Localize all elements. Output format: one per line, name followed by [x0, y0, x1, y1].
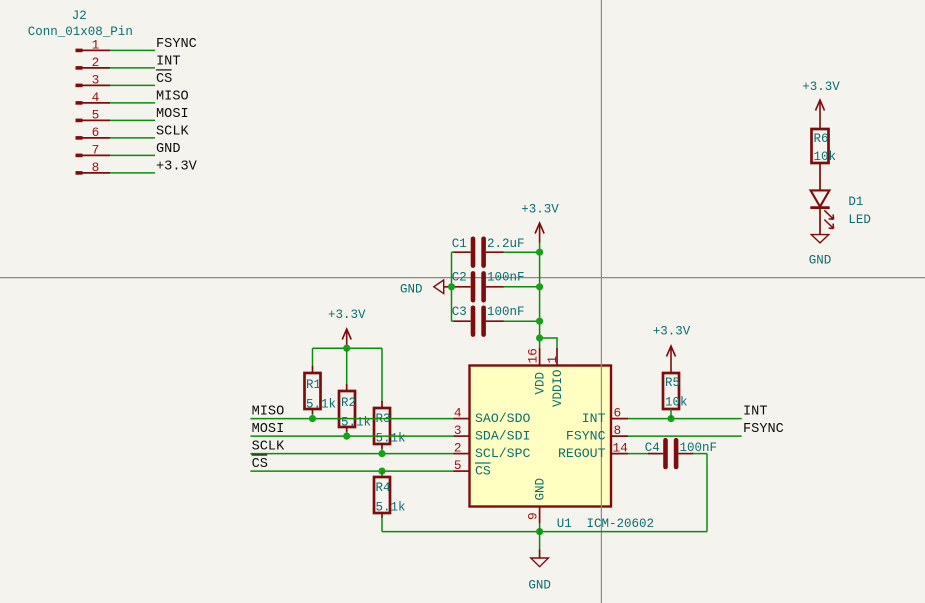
power symbol +3.3V (LED branch): [802, 80, 840, 129]
wire SCLK row: [250, 453, 453, 455]
junction R1 MISO: [309, 415, 316, 422]
op-amp U1 pin 8 FSYNC: [566, 423, 628, 444]
ground symbol (decoupling): [400, 280, 444, 296]
wire R3 to SCLK: [381, 449, 383, 454]
capacitor C2: [444, 271, 525, 301]
svg-text:C3: C3: [452, 305, 467, 319]
svg-text:LED: LED: [848, 213, 871, 227]
svg-text:GND: GND: [809, 254, 832, 268]
svg-text:6: 6: [614, 405, 622, 420]
ground symbol (U1): [528, 550, 551, 593]
op-amp U1 pin 9 GND: [526, 478, 548, 524]
wire ground row under U1: [382, 531, 707, 533]
J2 pin 6: [76, 125, 111, 140]
resistor R2: [339, 384, 371, 432]
wire J2 pin5 to MOSI: [110, 119, 155, 121]
op-amp U1 pin 5 CS: [454, 458, 491, 479]
svg-text:7: 7: [92, 142, 100, 157]
J2 pin 5: [76, 107, 111, 122]
svg-text:+3.3V: +3.3V: [653, 325, 691, 339]
svg-text:16: 16: [526, 348, 541, 363]
svg-text:GND: GND: [533, 478, 547, 501]
svg-text:8: 8: [92, 160, 100, 175]
svg-text:C2: C2: [452, 271, 467, 285]
resistor R3: [374, 401, 406, 449]
junction R5 INT: [667, 415, 674, 422]
op-amp U1 pin 1 VDDIO: [545, 348, 565, 407]
wire rail to R2: [346, 348, 348, 385]
svg-text:4: 4: [92, 90, 100, 105]
wire rail to R1: [312, 348, 314, 367]
wire FSYNC row: [628, 435, 742, 437]
wire R4 to ground row: [381, 518, 383, 532]
svg-text:Conn_01x08_Pin: Conn_01x08_Pin: [28, 25, 133, 39]
net label CS with overline: [252, 455, 268, 472]
wire C1 left: [452, 251, 455, 253]
wire C3 left: [452, 320, 455, 322]
J2 pin 8: [76, 160, 111, 175]
svg-text:FSYNC: FSYNC: [743, 422, 784, 437]
svg-text:VDDIO: VDDIO: [551, 369, 565, 407]
wire INT row: [628, 418, 742, 420]
svg-text:SCL/SPC: SCL/SPC: [475, 446, 530, 461]
junction R2 MOSI: [343, 433, 350, 440]
svg-text:MISO: MISO: [252, 405, 285, 420]
wire R5 to INT: [670, 409, 672, 419]
junction C3 rail: [536, 318, 543, 325]
svg-text:SCLK: SCLK: [252, 440, 285, 455]
svg-text:GND: GND: [400, 282, 423, 296]
wire R6 to D1: [819, 163, 821, 191]
svg-text:D1: D1: [848, 195, 863, 209]
svg-text:+3.3V: +3.3V: [802, 80, 840, 94]
svg-text:SCLK: SCLK: [156, 125, 189, 140]
op-amp U1 pin 16 VDD: [526, 348, 548, 395]
wire U1 pin9 to junction: [539, 523, 541, 550]
svg-text:GND: GND: [156, 142, 180, 157]
wire J2 pin8 to +3.3V: [110, 172, 155, 174]
resistor R6: [812, 129, 837, 164]
resistor R1: [305, 366, 337, 414]
power symbol +3.3V (decoupling rail): [521, 203, 559, 244]
wire branch to VDDIO pin: [540, 338, 557, 349]
wire J2 pin3 to CS: [110, 84, 155, 86]
svg-text:INT: INT: [582, 411, 606, 426]
svg-text:VDD: VDD: [533, 372, 547, 395]
svg-text:R4: R4: [376, 481, 391, 495]
resistor R5: [663, 373, 688, 410]
wire MOSI row: [250, 435, 453, 437]
junction R4 CS: [378, 468, 385, 475]
wire MISO row: [250, 418, 453, 420]
J2 pin 2: [76, 55, 111, 70]
svg-text:100nF: 100nF: [487, 271, 525, 285]
svg-text:R5: R5: [665, 376, 680, 390]
svg-text:10k: 10k: [665, 396, 688, 410]
svg-text:5.1k: 5.1k: [376, 432, 406, 446]
svg-text:5.1k: 5.1k: [306, 398, 336, 412]
wire CS row: [250, 470, 453, 472]
svg-text:REGOUT: REGOUT: [558, 446, 606, 461]
power symbol +3.3V (pull-up rail): [328, 308, 366, 348]
capacitor C4: [645, 440, 717, 467]
wire J2 pin7 to GND: [110, 154, 155, 156]
wire J2 pin4 to MISO: [110, 102, 155, 104]
svg-text:9: 9: [526, 512, 541, 520]
svg-text:CS: CS: [475, 463, 491, 478]
svg-text:100nF: 100nF: [487, 305, 525, 319]
svg-text:INT: INT: [743, 405, 767, 420]
junction U1 GND pin: [536, 528, 543, 535]
svg-text:10k: 10k: [814, 150, 837, 164]
svg-text:U1: U1: [557, 517, 572, 531]
wire J2 pin6 to SCLK: [110, 137, 155, 139]
svg-text:GND: GND: [528, 579, 551, 593]
wire C2 right to rail: [504, 286, 540, 288]
wire C4 down right side: [706, 454, 708, 532]
J2 pin 7: [76, 142, 111, 157]
svg-text:R1: R1: [306, 378, 321, 392]
svg-text:5.1k: 5.1k: [376, 501, 406, 515]
svg-text:3: 3: [92, 72, 100, 87]
wire C4 right: [693, 453, 707, 455]
junction R3 SCLK: [378, 450, 385, 457]
wire C3 right to rail: [504, 320, 540, 322]
capacitor C3: [452, 305, 525, 335]
svg-text:14: 14: [613, 440, 629, 455]
op-amp U1 body placeholder: [470, 366, 612, 507]
svg-text:+3.3V: +3.3V: [521, 203, 559, 217]
svg-text:C4: C4: [645, 441, 660, 455]
svg-text:1: 1: [545, 356, 560, 364]
power symbol +3.3V (R5 pull-up): [653, 325, 691, 374]
wire J2 pin2 to INT: [110, 67, 155, 69]
svg-text:1: 1: [92, 37, 100, 52]
junction C2 rail: [536, 283, 543, 290]
op-amp U1 pin 14 REGOUT: [558, 440, 628, 461]
svg-text:5: 5: [454, 458, 462, 473]
wire pull-up rail horizontal: [313, 347, 383, 349]
svg-text:6: 6: [92, 125, 100, 140]
svg-text:FSYNC: FSYNC: [566, 428, 606, 443]
LED D1: [810, 190, 871, 234]
wire vertical joining C1 C2 C3 left: [451, 252, 453, 321]
junction C2 ground node: [448, 283, 455, 290]
svg-text:SDA/SDI: SDA/SDI: [475, 428, 530, 443]
op-amp U1 pin 3 SDA/SDI: [454, 423, 531, 444]
svg-text:2: 2: [454, 440, 462, 455]
svg-text:5.1k: 5.1k: [341, 416, 371, 430]
op-amp U1 pin 2 SCL/SPC: [454, 440, 531, 461]
svg-text:MISO: MISO: [156, 90, 189, 105]
svg-text:4: 4: [454, 405, 462, 420]
op-amp U1 pin 6 INT: [582, 405, 628, 426]
svg-text:SAO/SDO: SAO/SDO: [475, 411, 530, 426]
svg-text:C1: C1: [452, 237, 467, 251]
svg-text:2: 2: [92, 55, 100, 70]
junction VDD branch: [536, 334, 543, 341]
wire CS to R4: [381, 471, 383, 478]
capacitor C1: [452, 237, 525, 266]
svg-text:+3.3V: +3.3V: [156, 160, 198, 175]
J2 pin 3: [76, 72, 111, 87]
J2 pin 1: [76, 37, 111, 52]
svg-text:J2: J2: [72, 9, 87, 23]
wire power to C1 node: [539, 242, 541, 252]
net label CS with overline: [156, 70, 172, 87]
wire J2 pin1 to FSYNC: [110, 49, 155, 51]
svg-text:CS: CS: [252, 457, 268, 472]
wire rail to R3: [381, 348, 383, 402]
junction C1 rail: [536, 249, 543, 256]
svg-text:ICM-20602: ICM-20602: [587, 517, 655, 531]
junction rail power: [343, 345, 350, 352]
resistor R4: [374, 477, 406, 518]
svg-text:5: 5: [92, 107, 100, 122]
svg-text:8: 8: [614, 423, 622, 438]
svg-text:R2: R2: [341, 396, 356, 410]
wire R2 to MOSI: [346, 432, 348, 437]
svg-text:R6: R6: [814, 132, 829, 146]
wire R1 to MISO: [312, 414, 314, 419]
wire vertical rail right of capacitors: [539, 252, 541, 348]
svg-text:CS: CS: [156, 72, 172, 87]
svg-text:MOSI: MOSI: [156, 107, 189, 122]
J2 pin 4: [76, 90, 111, 105]
wire REGOUT to C4: [628, 453, 657, 455]
svg-text:MOSI: MOSI: [252, 422, 285, 437]
svg-text:FSYNC: FSYNC: [156, 37, 197, 52]
svg-text:2.2uF: 2.2uF: [487, 237, 525, 251]
op-amp U1 pin 4 SAO/SDO: [454, 405, 531, 426]
svg-text:+3.3V: +3.3V: [328, 308, 366, 322]
ground symbol (LED branch): [809, 235, 832, 268]
svg-text:INT: INT: [156, 55, 180, 70]
wire C1 right to rail: [504, 251, 540, 253]
svg-text:3: 3: [454, 423, 462, 438]
